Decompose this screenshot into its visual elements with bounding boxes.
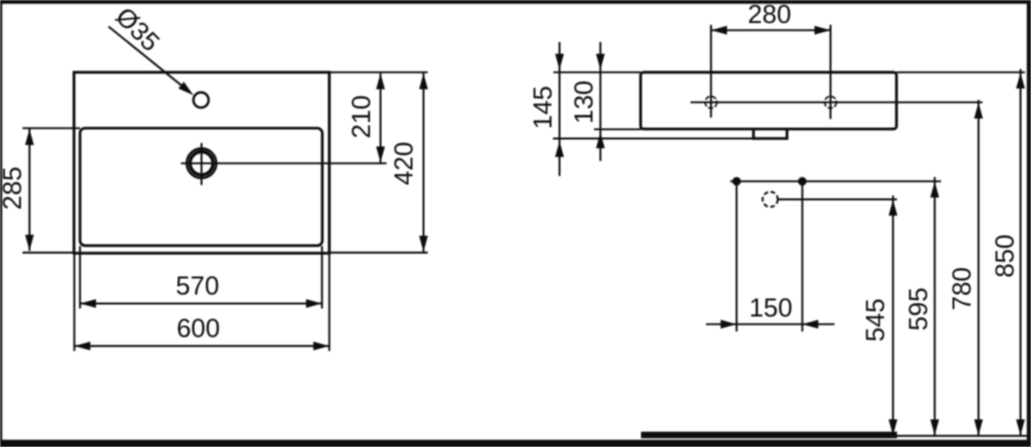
- svg-text:210: 210: [346, 95, 376, 138]
- svg-text:780: 780: [947, 267, 977, 310]
- svg-text:150: 150: [749, 292, 792, 322]
- svg-text:600: 600: [177, 313, 220, 343]
- svg-text:850: 850: [989, 234, 1019, 277]
- svg-text:595: 595: [903, 287, 933, 330]
- svg-text:145: 145: [528, 86, 558, 129]
- svg-text:285: 285: [0, 167, 27, 210]
- svg-text:130: 130: [569, 81, 599, 124]
- svg-text:570: 570: [176, 271, 219, 301]
- svg-text:420: 420: [389, 142, 419, 185]
- svg-text:280: 280: [748, 0, 791, 29]
- svg-text:545: 545: [860, 298, 890, 341]
